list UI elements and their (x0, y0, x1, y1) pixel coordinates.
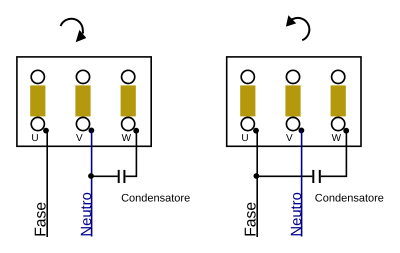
svg-text:Neutro: Neutro (289, 192, 305, 236)
junction dot W (133, 128, 139, 134)
terminal V bottom circle (right) (286, 117, 299, 130)
terminal V bottom circle (76, 117, 89, 130)
junction dot on Fase wire (right) (254, 173, 260, 179)
wire: Neutro (blue) down from V (right) (301, 130, 303, 236)
rotation arrow (clockwise) (61, 19, 87, 43)
terminal W link bar (right) (331, 85, 346, 116)
svg-text:Condensatore: Condensatore (315, 192, 384, 204)
svg-text:V: V (286, 133, 293, 144)
svg-text:Neutro: Neutro (79, 192, 95, 236)
terminal V top circle (right) (286, 70, 299, 83)
capacitor left plate (118, 170, 120, 183)
wire: Neutro (blue) down from V (91, 130, 93, 236)
rotation arrow (counter-clockwise) (286, 15, 309, 40)
terminal V link bar (75, 85, 90, 116)
terminal W bottom circle (122, 117, 135, 130)
junction dot V (89, 127, 95, 133)
terminal U link bar (right) (240, 85, 255, 116)
terminal V link bar (right) (285, 85, 300, 116)
terminal U bottom circle (right) (241, 117, 254, 130)
terminal U bottom circle (31, 117, 44, 130)
svg-text:Fase: Fase (33, 202, 50, 237)
junction dot U (right) (253, 128, 259, 134)
terminal board outline (left motor) (17, 57, 151, 146)
terminal board outline (right motor) (227, 57, 361, 146)
wire: Fase (phase) down from U (46, 131, 48, 237)
svg-text:V: V (76, 133, 83, 144)
svg-text:U: U (241, 133, 248, 144)
terminal U link bar (30, 85, 45, 116)
wire: from W down and left to capacitor (right) (321, 131, 347, 177)
terminal W top circle (right) (332, 70, 345, 83)
wire: from Neutro junction to capacitor (92, 175, 118, 177)
junction dot W (right) (343, 128, 349, 134)
junction dot on Neutro wire (88, 173, 94, 179)
capacitor right plate (right) (319, 170, 321, 183)
terminal U top circle (31, 70, 44, 83)
terminal W link bar (121, 85, 136, 116)
svg-text:W: W (332, 133, 342, 144)
capacitor right plate (123, 170, 125, 183)
terminal W top circle (122, 70, 135, 83)
capacitor left plate (right) (312, 170, 314, 183)
svg-text:W: W (122, 133, 132, 144)
junction dot U (43, 128, 49, 134)
wire: Fase down from U (right) (256, 131, 258, 237)
wire: from W down and left to capacitor (125, 131, 136, 177)
svg-text:Fase: Fase (243, 202, 260, 237)
svg-text:Condensatore: Condensatore (121, 192, 190, 204)
terminal U top circle (right) (241, 70, 254, 83)
svg-text:U: U (31, 133, 38, 144)
junction dot V (right) (299, 127, 305, 133)
terminal W bottom circle (right) (332, 117, 345, 130)
wire: from Fase junction to capacitor (right) (257, 175, 312, 177)
terminal V top circle (76, 70, 89, 83)
